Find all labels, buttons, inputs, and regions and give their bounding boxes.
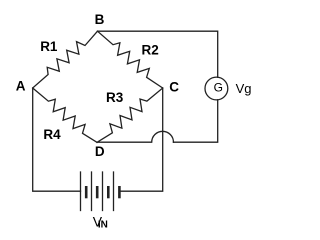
- svg-text:G: G: [214, 81, 223, 95]
- svg-text:IN: IN: [98, 219, 108, 230]
- svg-text:R3: R3: [106, 90, 124, 105]
- svg-text:R1: R1: [40, 39, 58, 54]
- svg-text:R2: R2: [142, 42, 159, 57]
- svg-text:Vg: Vg: [236, 81, 252, 96]
- svg-text:D: D: [95, 144, 105, 159]
- svg-text:C: C: [169, 79, 179, 94]
- svg-text:B: B: [95, 12, 105, 27]
- svg-text:A: A: [16, 79, 26, 94]
- svg-text:R4: R4: [43, 127, 61, 142]
